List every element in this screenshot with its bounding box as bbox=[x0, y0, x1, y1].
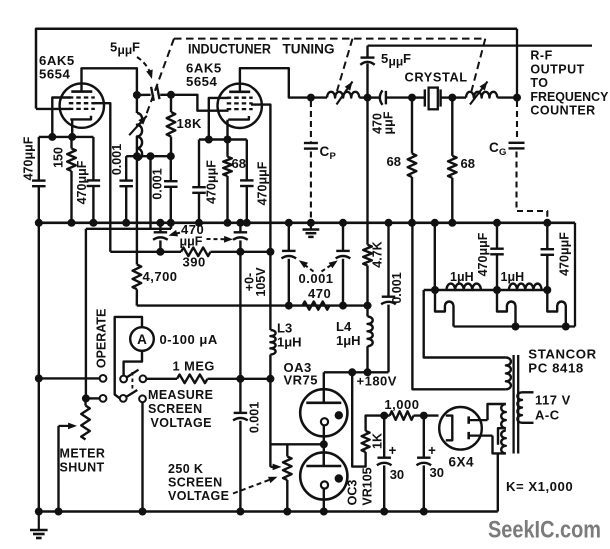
resistor 1000 bbox=[380, 412, 388, 420]
wire shield bottom line bbox=[454, 325, 576, 327]
svg-text:390: 390 bbox=[183, 255, 206, 270]
svg-text:COUNTER: COUNTER bbox=[530, 104, 595, 118]
wire lower net line y=228.8 bbox=[86, 228, 171, 230]
node osc line left (310.9,97.6) bbox=[307, 94, 315, 102]
capacitor 470uuF (V2 cathode) bbox=[246, 140, 248, 181]
wire rail to switch row1 bbox=[39, 377, 100, 379]
svg-text:5654: 5654 bbox=[39, 67, 71, 82]
switch S1 row2 terminals bbox=[100, 395, 107, 402]
svg-text:VR105: VR105 bbox=[361, 467, 375, 505]
wire V2 screen exit right down bbox=[251, 105, 270, 252]
svg-text:FREQUENCY: FREQUENCY bbox=[530, 90, 609, 104]
svg-text:C: C bbox=[489, 140, 499, 155]
wire V2 plate up to osc line bbox=[240, 68, 311, 97]
svg-text:OPERATE: OPERATE bbox=[95, 309, 109, 369]
wire +105V screen line y=251.8 bbox=[110, 251, 181, 253]
svg-text:470μμF: 470μμF bbox=[558, 232, 572, 276]
wire grid-leak drop to lower net bbox=[149, 156, 151, 229]
svg-text:SHUNT: SHUNT bbox=[60, 461, 105, 475]
svg-text:68: 68 bbox=[387, 154, 401, 169]
svg-text:0-100 μA: 0-100 μA bbox=[160, 332, 218, 347]
resistor 68 (crystal left) bbox=[411, 98, 413, 154]
resistor 18K bbox=[170, 95, 172, 112]
arrow meter shunt wiper bbox=[59, 425, 74, 427]
capacitor 30uF (a) bbox=[383, 416, 385, 458]
wire bus right end drop bbox=[574, 223, 576, 327]
svg-text:PC 8418: PC 8418 bbox=[528, 361, 584, 376]
wire V2 cathode lead bbox=[226, 120, 228, 140]
svg-text:6X4: 6X4 bbox=[449, 455, 475, 470]
capacitor 470uuF series (crystal) bbox=[368, 96, 380, 98]
tube V2 6AK5 5654 bbox=[218, 84, 262, 128]
inductor 1uH (a) bbox=[447, 284, 481, 290]
svg-text:L3: L3 bbox=[277, 321, 292, 336]
arrow to 0.001 b bbox=[322, 263, 336, 272]
svg-text:5: 5 bbox=[381, 51, 388, 66]
svg-text:470μμF: 470μμF bbox=[476, 232, 490, 276]
resistor 250K pot bbox=[286, 444, 288, 456]
svg-text:5654: 5654 bbox=[186, 74, 218, 89]
arrow through osc coil bbox=[129, 116, 147, 135]
svg-text:A-C: A-C bbox=[535, 408, 560, 423]
wire switch row2 right to ground bus bbox=[141, 402, 143, 511]
wire V1 top-grid stub down to cathode net bbox=[52, 98, 70, 137]
svg-text:117 V: 117 V bbox=[535, 393, 571, 408]
svg-text:INDUCTUNER: INDUCTUNER bbox=[188, 42, 271, 57]
resistor 4.7K bbox=[366, 98, 368, 245]
svg-text:STANCOR: STANCOR bbox=[528, 347, 596, 362]
switch link dashed bbox=[131, 372, 133, 390]
inductor variable L1 bbox=[311, 96, 327, 98]
capacitor 470uuF heater a bbox=[496, 223, 498, 248]
capacitor 5uuF trimmer (V1 grid) bbox=[133, 91, 141, 99]
wire V1 cathode bus y=136.9 bbox=[39, 136, 94, 138]
svg-text:VR75: VR75 bbox=[284, 373, 319, 388]
transformer T1 heater winding bbox=[424, 290, 506, 358]
svg-text:1μH: 1μH bbox=[336, 333, 361, 348]
switch S1 row2 arm bbox=[126, 390, 137, 397]
svg-text:250 K: 250 K bbox=[168, 462, 203, 476]
tube V4 OC3 VR105 bbox=[300, 452, 347, 499]
svg-text:SCREEN: SCREEN bbox=[148, 402, 203, 416]
svg-text:150: 150 bbox=[52, 147, 66, 168]
wire top feedback rail bbox=[36, 29, 517, 109]
node R-F output (517,97.6) bbox=[516, 29, 518, 98]
svg-text:μμ: μμ bbox=[118, 43, 133, 57]
resistor 470 (screen) bbox=[303, 302, 330, 310]
svg-text:0.001: 0.001 bbox=[390, 272, 404, 303]
capacitor 470uuF (left rail) bbox=[38, 137, 40, 181]
capacitor 470uuF trimmer 2 bbox=[239, 223, 241, 232]
wire V2 cathode bus y=139.5 bbox=[199, 138, 247, 140]
arrow through L2 bbox=[470, 82, 488, 105]
wire V1 grid entry from rail bbox=[36, 108, 71, 110]
svg-text:5: 5 bbox=[110, 40, 117, 55]
capacitor 0.001 (screen b) bbox=[342, 223, 344, 251]
svg-text:OC3: OC3 bbox=[345, 480, 359, 506]
svg-text:F: F bbox=[132, 40, 140, 55]
wire V3 cathode to V4 plate bbox=[323, 436, 325, 466]
capacitor 0.001 (screen meter) bbox=[239, 379, 241, 413]
capacitor 5uuF (feedback) bbox=[366, 63, 368, 97]
svg-text:470μμF: 470μμF bbox=[205, 160, 219, 204]
wire meter bottom to switch row1 bbox=[124, 351, 142, 376]
svg-text:1μH: 1μH bbox=[277, 335, 302, 350]
svg-text:4,700: 4,700 bbox=[143, 269, 178, 284]
svg-text:P: P bbox=[330, 151, 337, 162]
svg-text:METER: METER bbox=[60, 447, 106, 461]
resistor 150 bbox=[70, 137, 72, 149]
svg-text:VOLTAGE: VOLTAGE bbox=[151, 416, 212, 430]
resistor 68 (crystal right) bbox=[451, 98, 453, 156]
arrow to 0.001 a bbox=[302, 263, 314, 272]
wire bus drop to heater node bbox=[434, 223, 436, 290]
svg-text:TO: TO bbox=[530, 76, 548, 90]
capacitor 470uuF (V1 cathode) bbox=[92, 137, 94, 181]
capacitor 30uF (b) bbox=[423, 416, 425, 458]
switch S1 row1 terminals bbox=[100, 375, 107, 382]
svg-text:SCREEN: SCREEN bbox=[168, 476, 223, 490]
ground (bottom left) bbox=[38, 512, 40, 530]
wire V4 cathode to ground bus bbox=[323, 500, 325, 512]
svg-text:1 MEG: 1 MEG bbox=[173, 359, 215, 374]
transformer T1 secondary HV lower bbox=[501, 431, 506, 454]
node crystal right bbox=[448, 94, 456, 102]
resistor METER SHUNT pot bbox=[84, 398, 86, 405]
svg-text:0.001: 0.001 bbox=[151, 168, 165, 199]
svg-text:4.7K: 4.7K bbox=[371, 241, 385, 267]
arrow label to 250K pot bbox=[233, 479, 273, 494]
wire L3 node to 250K pot and VR junction bbox=[269, 379, 271, 467]
svg-text:F: F bbox=[403, 51, 411, 66]
svg-text:MEASURE: MEASURE bbox=[148, 388, 213, 402]
svg-text:1K: 1K bbox=[371, 433, 385, 449]
wire screen feed line y=305.6 bbox=[137, 304, 372, 306]
transformer T1 core bbox=[512, 355, 514, 454]
capacitor 0.001 (V1 grid) bbox=[125, 156, 127, 180]
svg-text:K= X1,000: K= X1,000 bbox=[506, 479, 573, 494]
wire shunt node to switch row2 bbox=[86, 397, 100, 399]
node crystal left bbox=[408, 94, 416, 102]
wire V2 top-grid stub down bbox=[209, 98, 229, 140]
svg-text:30: 30 bbox=[390, 467, 404, 482]
svg-text:+: + bbox=[428, 443, 436, 458]
wire meter top to switch row2 bbox=[115, 317, 142, 399]
svg-text:OUTPUT: OUTPUT bbox=[530, 62, 584, 76]
svg-text:105V: 105V bbox=[254, 267, 268, 297]
meter M 0-100uA bbox=[130, 327, 154, 351]
svg-text:1μH: 1μH bbox=[501, 270, 525, 284]
arrow 5uuF label to trimmer bbox=[137, 57, 151, 75]
transformer T1 117V primary bbox=[517, 392, 522, 423]
svg-text:68: 68 bbox=[461, 156, 475, 171]
capacitor 0.001 (+180V) bbox=[387, 223, 389, 296]
arrow through L1 bbox=[337, 82, 353, 105]
svg-text:0.001: 0.001 bbox=[110, 144, 124, 175]
feedthrough shield 2 bbox=[497, 290, 516, 327]
svg-text:+180V: +180V bbox=[357, 374, 397, 389]
svg-text:A: A bbox=[137, 332, 147, 347]
svg-text:VOLTAGE: VOLTAGE bbox=[168, 489, 229, 503]
inductor L4 1uH bbox=[366, 306, 368, 317]
resistor 1 MEG bbox=[146, 378, 177, 380]
arrow to trimmer 2 bbox=[207, 238, 230, 240]
arrow 250K wiper bbox=[273, 464, 282, 471]
wire grid-leak node line y=156 bbox=[126, 155, 171, 157]
switch S1 row1 arm bbox=[127, 370, 139, 378]
resistor 1K bbox=[366, 416, 384, 431]
wire heater line y=290 bbox=[424, 289, 548, 291]
svg-text:G: G bbox=[499, 147, 506, 158]
svg-text:CRYSTAL: CRYSTAL bbox=[405, 70, 468, 85]
inductor 1uH (b) bbox=[509, 284, 542, 290]
resistor 4700 bbox=[136, 156, 138, 264]
svg-text:0.001: 0.001 bbox=[248, 402, 262, 433]
wire +180V line bbox=[324, 371, 389, 373]
svg-text:0.001: 0.001 bbox=[299, 271, 334, 286]
wire V1 cathode lead bbox=[71, 120, 73, 137]
crystal Y1 bbox=[412, 96, 425, 98]
svg-text:30: 30 bbox=[430, 465, 444, 480]
svg-text:1μH: 1μH bbox=[450, 270, 474, 284]
ground (osc bus) bbox=[310, 223, 312, 229]
capacitor Cp dashed bbox=[310, 101, 312, 142]
svg-text:1,000: 1,000 bbox=[384, 397, 419, 412]
svg-text:+: + bbox=[389, 443, 397, 458]
wire V1 screen exit right down to bus bbox=[93, 103, 110, 252]
svg-text:470μμF: 470μμF bbox=[22, 136, 36, 180]
svg-text:R-F: R-F bbox=[530, 49, 552, 63]
capacitor 470uuF (V2 grid side) bbox=[198, 140, 200, 188]
capacitor 0.001 (screen a) bbox=[288, 223, 290, 251]
resistor 390 bbox=[181, 248, 211, 257]
svg-text:SeekIC.com: SeekIC.com bbox=[488, 517, 601, 544]
svg-text:L4: L4 bbox=[336, 319, 352, 334]
svg-text:μμF: μμF bbox=[382, 111, 396, 134]
inductor L3 1uH bbox=[269, 252, 271, 330]
transformer T1 secondary HV upper bbox=[488, 404, 506, 420]
feedthrough shield 3 bbox=[547, 290, 566, 327]
svg-text:μμF: μμF bbox=[180, 235, 203, 249]
capacitor 0.001 (osc grid 2) bbox=[170, 156, 172, 181]
capacitor 470uuF trimmer 1 bbox=[159, 223, 161, 232]
wire V3 plate to +180V bbox=[323, 372, 325, 389]
wire left rail bbox=[38, 223, 40, 512]
svg-text:TUNING: TUNING bbox=[283, 42, 335, 57]
tube V3 OA3 VR75 bbox=[300, 389, 347, 436]
svg-text:68: 68 bbox=[232, 156, 246, 171]
svg-text:μμ: μμ bbox=[389, 55, 404, 69]
wire screen line to 1MEG junction bbox=[239, 252, 241, 379]
resistor 68 (V2 cathode) bbox=[226, 140, 228, 157]
svg-text:470: 470 bbox=[308, 286, 331, 301]
capacitor CG dashed bbox=[516, 101, 518, 141]
wire main bus y=222.8 bbox=[39, 222, 575, 225]
dashed box INDUCTUNER TUNING bbox=[174, 38, 485, 40]
svg-text:470μμF: 470μμF bbox=[75, 160, 89, 204]
arrow to trimmer 1 bbox=[172, 233, 181, 235]
feedthrough shield 1 bbox=[435, 290, 454, 327]
wire V1 plate to 5uuF trimmer node bbox=[82, 68, 137, 95]
wire V2 grid entry bbox=[171, 95, 229, 111]
svg-text:18K: 18K bbox=[177, 116, 202, 131]
svg-text:470μμF: 470μμF bbox=[256, 161, 270, 205]
wire ground bus bottom bbox=[39, 510, 498, 513]
wire R-F output stub bbox=[368, 44, 592, 46]
tube V1 6AK5 5654 bbox=[60, 83, 104, 127]
inductor variable (V1 osc coil) bbox=[136, 95, 138, 113]
capacitor 470uuF heater b bbox=[546, 223, 548, 249]
tube V5 6X4 bbox=[439, 407, 482, 450]
inductor variable L2 bbox=[452, 96, 466, 98]
svg-text:C: C bbox=[320, 144, 330, 159]
wire HV winding end to ground bus bbox=[497, 453, 499, 511]
